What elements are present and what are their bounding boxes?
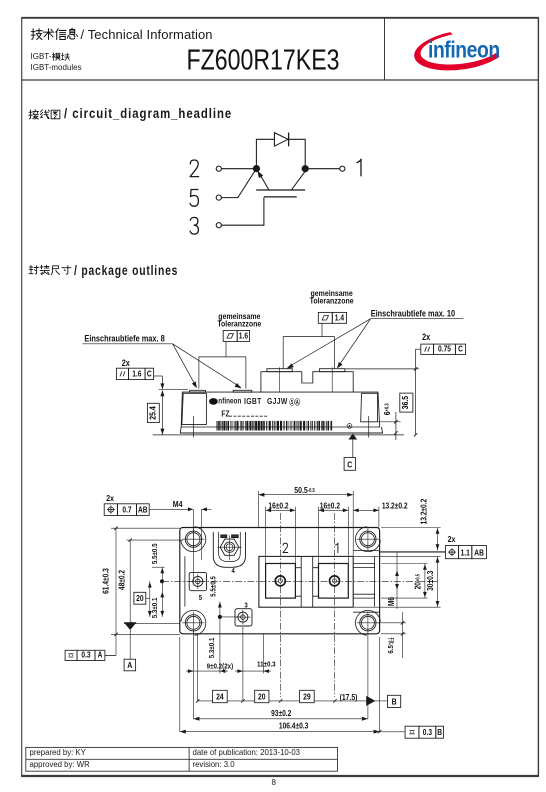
mounting hole TR <box>355 527 380 552</box>
datum A triangle <box>124 622 137 630</box>
recessed edges <box>184 556 186 606</box>
diode D1 <box>274 133 288 147</box>
bottom extension line <box>153 434 404 436</box>
label 1 <box>357 159 361 176</box>
small labels <box>199 567 248 609</box>
module body outline <box>181 392 380 427</box>
node collector-left <box>253 166 259 172</box>
top view dim ticks <box>114 527 404 734</box>
terminal 4 bracket <box>213 532 245 567</box>
top view arrowheads <box>258 493 264 497</box>
mounting hole BL <box>181 610 206 635</box>
infineon logo <box>414 32 499 70</box>
terminal 3 <box>235 609 252 626</box>
25.4 box <box>147 403 159 422</box>
IGBT emitter bar <box>256 189 305 191</box>
M6 dim line <box>396 552 398 609</box>
power terminal block <box>261 372 353 392</box>
middle bridge <box>300 556 302 607</box>
right screw boss <box>361 393 378 422</box>
leader flatness 1.4 <box>321 323 323 336</box>
IGBT gate bar <box>264 196 297 198</box>
header chinese title <box>31 29 42 40</box>
barcode <box>217 421 333 431</box>
boxed dims <box>213 690 228 702</box>
wire pin2 to node <box>222 168 254 170</box>
terminal 5 <box>216 195 221 200</box>
terminal 2 <box>216 166 221 171</box>
datum C box <box>344 457 355 470</box>
Einschraubtiefe 10 leaders <box>371 318 464 320</box>
datum B triangle <box>366 696 375 706</box>
flatness frame 1.4 <box>318 312 346 323</box>
label 3 <box>190 217 198 234</box>
terminal 4 hex <box>220 539 239 555</box>
terminal 5 <box>189 572 206 590</box>
terminal 1 pad <box>319 564 349 599</box>
second cap <box>233 390 252 392</box>
block cap right <box>320 369 345 372</box>
top view dimension texts <box>101 486 456 731</box>
IGBT collector diagonal <box>291 171 305 190</box>
section heading 1 <box>29 110 39 119</box>
wire node to pin1 <box>308 168 339 170</box>
parallel frame 2x 1.6 C <box>116 368 153 379</box>
module print <box>209 396 300 418</box>
wire diode to right node <box>289 139 306 165</box>
right tolerance-zone bracket <box>283 337 334 369</box>
36.5 box <box>400 393 413 412</box>
label 2 <box>283 543 288 552</box>
terminal 1 <box>340 166 345 171</box>
centerlines <box>160 513 438 697</box>
leader flatness 1.6 <box>225 341 227 357</box>
mounting hole TL <box>181 527 206 552</box>
boss axis <box>193 416 195 438</box>
IGBT emitter arrow wire <box>258 172 269 190</box>
flatness frame 1.6 <box>223 331 249 342</box>
36.5 dim <box>345 368 419 370</box>
wire pin3 gate <box>222 197 264 225</box>
terminal 3 <box>216 223 221 228</box>
left tolerance-zone bracket <box>199 357 246 389</box>
right lip <box>353 550 379 612</box>
left boss cap <box>190 390 206 392</box>
module outline <box>180 528 380 634</box>
wire node up-left to diode <box>256 139 274 165</box>
label 5 <box>190 190 198 207</box>
section heading 2 <box>29 265 38 274</box>
IGBT emitter arrowhead <box>257 171 263 179</box>
dimensions <box>105 491 446 732</box>
baseplate <box>180 427 382 433</box>
side view dim ticks <box>394 367 417 436</box>
circuit diagram <box>216 133 345 228</box>
label 1 <box>336 543 338 552</box>
wire pin5 diagonal <box>222 171 255 197</box>
mounting hole BR <box>355 610 380 635</box>
terminal 2 pad <box>266 564 296 599</box>
node collector-right <box>302 166 308 172</box>
power block outline <box>259 556 353 607</box>
terminal axes <box>279 367 281 392</box>
side view arrowheads <box>160 383 164 389</box>
left screw boss <box>182 393 207 424</box>
Einschraubtiefe 8 leaders <box>83 343 173 345</box>
6+0.3 dim <box>378 421 401 423</box>
label 2 <box>190 160 199 177</box>
datum C triangle <box>352 440 354 458</box>
parallel frame 2x 0.75 C <box>421 344 466 355</box>
5.3 dim arrow <box>160 592 164 598</box>
25.4 dim <box>154 375 163 377</box>
block cap left <box>267 369 292 372</box>
footer table <box>26 747 338 771</box>
side view labels <box>84 288 455 368</box>
